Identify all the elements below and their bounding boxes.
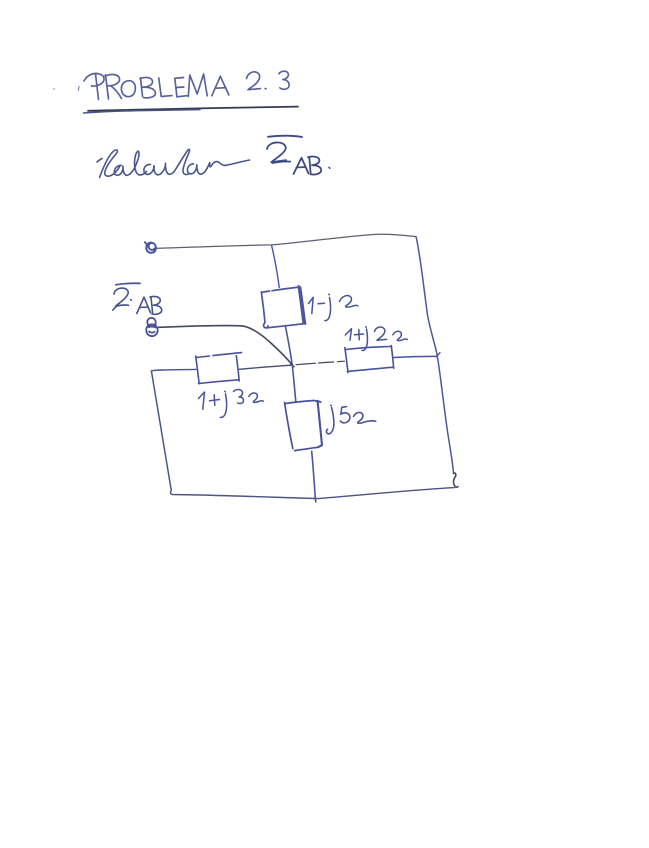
title underline xyxy=(84,107,299,113)
label 1-j ohm xyxy=(309,294,358,320)
wire node to right box (dashed look) xyxy=(296,361,345,365)
Z AB circuit label overline xyxy=(116,283,140,285)
impedance box Z1 (1-j ohm) xyxy=(261,286,305,328)
wire top junction down to box 1-j xyxy=(272,245,280,287)
small speck xyxy=(53,88,56,91)
wire box 1-j down to node xyxy=(285,326,292,366)
title PROBLEMA 2.3 xyxy=(78,71,289,99)
tick at right edge junction xyxy=(437,353,440,357)
impedance box Z2 (1+j2 ohm) xyxy=(345,346,394,373)
terminal A xyxy=(145,242,156,253)
wire B diagonal to node xyxy=(159,326,293,366)
wire node down to box j5 xyxy=(292,365,296,401)
label 1+j2 ohm xyxy=(345,327,407,351)
wire box j5 down through bottom wire xyxy=(312,451,316,502)
terminal B xyxy=(146,318,157,336)
left edge wire xyxy=(151,371,171,491)
right edge wire xyxy=(416,237,454,474)
node junction blob xyxy=(291,364,294,367)
impedance box Z3 (1+j3 ohm) xyxy=(196,353,242,384)
wire right box to right edge xyxy=(394,356,437,357)
wire left edge to left box xyxy=(151,369,196,371)
subtitle Z bar AB xyxy=(267,136,330,175)
label j5 ohm xyxy=(326,405,375,434)
bottom-right corner knot xyxy=(453,473,458,487)
Z AB circuit label Z xyxy=(113,288,132,310)
impedance box Z4 (j5 ohm) xyxy=(285,401,323,451)
wire A to top-right corner xyxy=(157,234,417,248)
wire left box to node xyxy=(239,365,292,369)
subtitle Calcular xyxy=(97,149,250,177)
Z AB circuit label AB xyxy=(137,296,162,314)
bottom wire xyxy=(170,488,454,499)
label 1+j3 ohm xyxy=(199,389,264,417)
